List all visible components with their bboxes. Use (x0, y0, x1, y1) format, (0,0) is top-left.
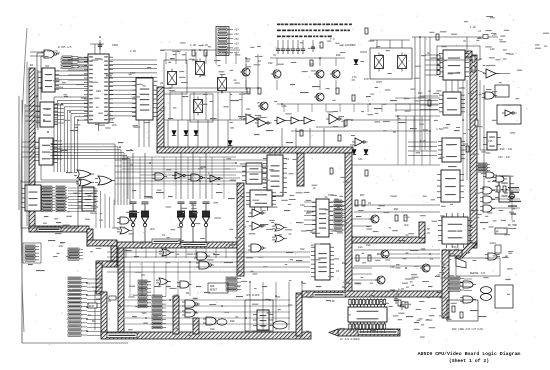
svg-text:A9: A9 (33, 132, 37, 135)
svg-text:1CM: 1CM (364, 78, 369, 81)
svg-text:R66: R66 (246, 58, 251, 61)
svg-text:R40: R40 (336, 54, 341, 57)
svg-text:+5V: +5V (234, 42, 239, 45)
svg-text:+5V: +5V (492, 34, 497, 37)
svg-text:KB: KB (342, 286, 346, 289)
svg-text:L99: L99 (490, 48, 495, 51)
svg-text:B 7G5 4/5: B 7G5 4/5 (58, 46, 72, 49)
svg-text:4C9: 4C9 (150, 228, 155, 231)
svg-text:WAIT: WAIT (89, 305, 95, 308)
svg-text:4.7K: 4.7K (398, 288, 405, 291)
svg-text:4C: 4C (428, 90, 432, 93)
svg-text:4A: 4A (262, 150, 266, 153)
svg-text:C40: C40 (300, 204, 305, 207)
svg-text:+5V: +5V (234, 52, 239, 55)
svg-text:C9: C9 (162, 234, 166, 237)
svg-text:C906: C906 (112, 44, 119, 47)
svg-text:R9: R9 (470, 98, 474, 101)
svg-text:A7: A7 (34, 96, 38, 99)
svg-text:+5V: +5V (234, 47, 239, 50)
svg-text:C9A: C9A (366, 244, 371, 247)
svg-text:4C9 CLOCK: 4C9 CLOCK (246, 294, 260, 297)
svg-text:B 7G5 4/5: B 7G5 4/5 (44, 50, 58, 53)
svg-text:4.5K: 4.5K (424, 228, 431, 231)
svg-text:1K: 1K (258, 60, 262, 63)
svg-text:C80: C80 (420, 336, 425, 339)
svg-text:C9: C9 (108, 300, 112, 303)
svg-text:1C 4/9 A/90C9: 1C 4/9 A/90C9 (340, 338, 360, 341)
svg-text:SERIAL I/O: SERIAL I/O (470, 272, 486, 275)
svg-text:R-3C: R-3C (420, 140, 427, 143)
svg-text:F8: F8 (404, 54, 408, 57)
svg-text:4C9: 4C9 (112, 124, 117, 127)
svg-text:C9: C9 (512, 220, 516, 223)
svg-text:49: 49 (160, 82, 164, 85)
svg-text:C35: C35 (488, 140, 493, 143)
svg-text:4.9152MHZ: 4.9152MHZ (342, 44, 356, 47)
svg-text:44C: 44C (358, 158, 363, 161)
svg-text:C34 .1JF: C34 .1JF (498, 156, 511, 159)
svg-text:C9: C9 (336, 270, 340, 273)
svg-text:R90: R90 (122, 158, 127, 161)
svg-text:4C9: 4C9 (404, 224, 409, 227)
svg-text:R9C: R9C (394, 208, 399, 211)
svg-text:C90: C90 (268, 62, 273, 65)
svg-text:RF MOD: RF MOD (508, 224, 518, 227)
svg-text:C9: C9 (130, 164, 134, 167)
svg-text:(Sheet 1 of 2): (Sheet 1 of 2) (449, 358, 489, 364)
svg-text:R9: R9 (186, 292, 190, 295)
svg-text:T40: T40 (330, 300, 335, 303)
svg-text:C4: C4 (286, 158, 290, 161)
svg-text:R40: R40 (230, 320, 235, 323)
svg-text:+5V: +5V (234, 33, 239, 36)
svg-text:F9: F9 (380, 54, 384, 57)
svg-text:R6C: R6C (360, 194, 365, 197)
svg-text:4.7K: 4.7K (92, 286, 99, 289)
svg-text:C9A: C9A (350, 144, 355, 147)
svg-text:R10 .7J0: R10 .7J0 (500, 148, 513, 151)
svg-text:C40: C40 (390, 266, 395, 269)
svg-text:C40: C40 (174, 294, 179, 297)
svg-text:4.7K: 4.7K (424, 232, 431, 235)
svg-text:B4: B4 (30, 64, 34, 67)
svg-text:C98: C98 (300, 248, 305, 251)
svg-text:2.2K: 2.2K (130, 50, 137, 53)
svg-text:RESET: RESET (210, 289, 218, 292)
svg-text:R4C: R4C (418, 92, 423, 95)
svg-text:A90 (SEE A/B C/5 U/R): A90 (SEE A/B C/5 U/R) (452, 328, 484, 331)
svg-text:A85I0 CPU/Video Board Logic Di: A85I0 CPU/Video Board Logic Diagram (418, 351, 521, 357)
svg-text:WAIT: WAIT (96, 298, 103, 301)
svg-text:C9: C9 (430, 258, 434, 261)
svg-text:+5V: +5V (234, 38, 239, 41)
svg-text:R98: R98 (342, 262, 347, 265)
svg-text:1.8C: 1.8C (470, 26, 477, 29)
svg-text:ANT: ANT (504, 192, 509, 195)
svg-text:C98: C98 (210, 328, 215, 331)
svg-text:2.4K: 2.4K (190, 44, 197, 47)
svg-text:4.59C: 4.59C (436, 128, 444, 131)
svg-text:+5V: +5V (234, 29, 239, 32)
svg-text:L94: L94 (358, 246, 363, 249)
svg-text:C34: C34 (452, 246, 457, 249)
svg-text:Z80: Z80 (96, 90, 101, 93)
svg-text:C9: C9 (368, 202, 372, 205)
svg-text:+5: +5 (478, 30, 482, 33)
svg-text:7.3: 7.3 (330, 38, 335, 41)
svg-text:C74: C74 (352, 76, 357, 79)
svg-text:C9L: C9L (246, 108, 251, 111)
svg-text:C9A: C9A (288, 304, 293, 307)
